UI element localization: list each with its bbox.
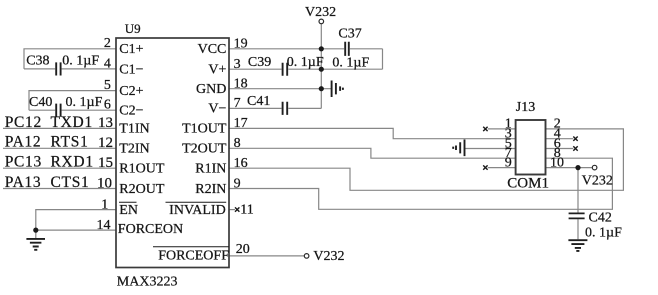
svg-text:COM1: COM1	[507, 175, 549, 191]
svg-text:0. 1µF: 0. 1µF	[585, 226, 622, 241]
svg-text:INVALID: INVALID	[169, 203, 226, 218]
svg-text:T2OUT: T2OUT	[182, 142, 227, 157]
svg-text:1: 1	[101, 197, 108, 212]
svg-text:19: 19	[234, 37, 248, 52]
svg-text:J13: J13	[516, 100, 535, 115]
svg-text:EN: EN	[119, 203, 138, 218]
svg-text:8: 8	[234, 136, 241, 151]
svg-text:9: 9	[505, 155, 512, 170]
svg-text:13: 13	[98, 115, 113, 131]
svg-text:CTS1: CTS1	[51, 174, 90, 191]
svg-text:R2IN: R2IN	[195, 182, 226, 197]
svg-text:RXD1: RXD1	[51, 154, 94, 171]
svg-text:15: 15	[98, 155, 113, 171]
svg-text:C1−: C1−	[119, 63, 143, 78]
svg-text:C41: C41	[247, 94, 270, 109]
svg-text:U9: U9	[125, 21, 141, 36]
svg-text:16: 16	[234, 156, 248, 171]
svg-text:FORCEON: FORCEON	[118, 222, 183, 237]
svg-text:0. 1µF: 0. 1µF	[287, 55, 324, 70]
svg-text:GND: GND	[196, 82, 226, 97]
svg-text:C40: C40	[29, 95, 52, 110]
svg-text:5: 5	[104, 78, 111, 93]
svg-text:14: 14	[97, 218, 111, 233]
svg-text:V232: V232	[305, 5, 336, 20]
svg-text:C1+: C1+	[119, 42, 143, 57]
svg-text:PA12: PA12	[5, 134, 42, 151]
svg-text:VCC: VCC	[198, 42, 227, 57]
svg-text:V−: V−	[208, 102, 226, 117]
svg-text:7: 7	[234, 96, 241, 111]
svg-text:C2−: C2−	[119, 103, 143, 118]
svg-text:MAX3223: MAX3223	[117, 274, 178, 289]
svg-text:T2IN: T2IN	[119, 142, 149, 157]
svg-text:0. 1µF: 0. 1µF	[62, 54, 99, 69]
svg-text:T1IN: T1IN	[119, 122, 149, 137]
svg-text:0. 1µF: 0. 1µF	[332, 56, 369, 71]
svg-text:17: 17	[234, 116, 248, 131]
svg-text:R1OUT: R1OUT	[119, 162, 165, 177]
svg-text:11: 11	[240, 203, 253, 218]
svg-text:C37: C37	[338, 27, 361, 42]
svg-text:V+: V+	[208, 63, 226, 78]
svg-text:12: 12	[98, 135, 113, 151]
svg-text:PC12: PC12	[5, 114, 42, 131]
svg-text:R1IN: R1IN	[195, 162, 226, 177]
svg-text:FORCEOFF: FORCEOFF	[158, 248, 229, 263]
svg-text:9: 9	[234, 176, 241, 191]
svg-text:R2OUT: R2OUT	[119, 182, 165, 197]
svg-text:T1OUT: T1OUT	[182, 122, 227, 137]
svg-text:2: 2	[104, 36, 111, 51]
svg-text:TXD1: TXD1	[51, 114, 93, 131]
svg-text:V232: V232	[582, 174, 613, 189]
svg-text:C38: C38	[26, 54, 49, 69]
svg-text:4: 4	[104, 56, 111, 71]
svg-text:10: 10	[550, 155, 564, 170]
svg-text:C39: C39	[248, 55, 271, 70]
svg-text:C42: C42	[589, 211, 612, 226]
svg-text:PC13: PC13	[5, 154, 42, 171]
svg-text:20: 20	[236, 242, 250, 257]
svg-text:10: 10	[97, 175, 112, 191]
svg-text:18: 18	[234, 77, 248, 92]
svg-text:C2+: C2+	[119, 84, 143, 99]
svg-text:V232: V232	[313, 249, 344, 264]
svg-text:PA13: PA13	[5, 174, 42, 191]
svg-text:3: 3	[234, 57, 241, 72]
svg-text:RTS1: RTS1	[51, 134, 89, 151]
svg-text:6: 6	[104, 98, 111, 113]
svg-text:0. 1µF: 0. 1µF	[66, 95, 103, 110]
